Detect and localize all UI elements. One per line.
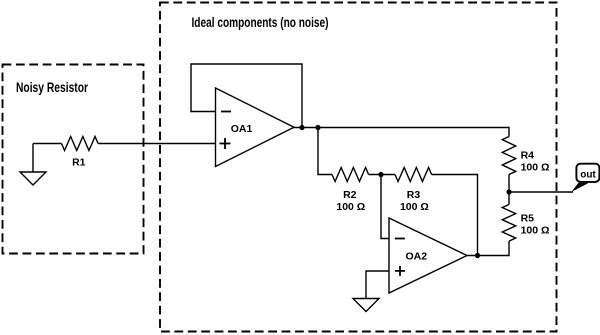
svg-text:100 Ω: 100 Ω [521, 225, 550, 237]
node: output divider junction [506, 189, 511, 194]
svg-text:out: out [580, 170, 596, 181]
resistor R3 [395, 168, 432, 182]
node out: flag box [576, 164, 599, 182]
wire: OA2 noninverting input to ground [366, 271, 389, 299]
wire: OA1 output to R4 top [294, 128, 509, 137]
ground GND1 [32, 144, 34, 173]
OA1 noninverting input sign [220, 138, 231, 149]
svg-text:Noisy Resistor: Noisy Resistor [16, 79, 88, 95]
node: output branch junction [315, 125, 320, 130]
wire: ground to R1 [33, 143, 62, 145]
OA2 noninverting input sign [395, 266, 405, 276]
wire: junction to OA2 inverting input [381, 175, 389, 239]
svg-text:100 Ω: 100 Ω [400, 201, 429, 213]
resistor R1 [62, 137, 99, 151]
wire: R1 to OA1 noninverting input [98, 143, 215, 145]
OA1 inverting input sign [221, 111, 231, 113]
svg-text:100 Ω: 100 Ω [521, 162, 550, 174]
ground GND2 [353, 299, 379, 312]
svg-text:R5: R5 [521, 212, 535, 224]
wire: OA1 feedback loop [191, 64, 302, 128]
wire: R2 to R3 [369, 174, 395, 176]
wire: R3 to OA2 output node [432, 175, 478, 256]
svg-text:R3: R3 [407, 189, 421, 201]
svg-text:R2: R2 [343, 189, 357, 201]
node out: flag pointer [572, 183, 590, 192]
wire: junction to out flag [509, 191, 573, 193]
node: feedback junction [299, 125, 304, 130]
resistor R4 [502, 137, 515, 175]
svg-text:R4: R4 [521, 149, 535, 161]
op-amp OA2 [389, 218, 467, 293]
svg-text:OA2: OA2 [406, 250, 428, 262]
svg-text:OA1: OA1 [231, 123, 253, 135]
wire: branch down to R2 [318, 128, 332, 175]
OA2 inverting input sign [395, 238, 405, 240]
wire: R4 to R5 [508, 175, 510, 205]
svg-text:R1: R1 [72, 157, 86, 169]
enclosure: Ideal components dashed box [160, 3, 557, 332]
svg-text:Ideal components (no noise): Ideal components (no noise) [192, 14, 329, 30]
resistor R5 [502, 205, 515, 242]
node: R2/R3 junction [378, 172, 383, 177]
svg-text:100 Ω: 100 Ω [336, 201, 365, 213]
enclosure: Noisy Resistor dashed box [3, 65, 144, 254]
resistor R2 [332, 168, 369, 182]
op-amp OA1 [216, 88, 295, 167]
wire: OA2 output to R5 bottom [467, 241, 509, 255]
node: OA2 output junction [475, 253, 480, 258]
